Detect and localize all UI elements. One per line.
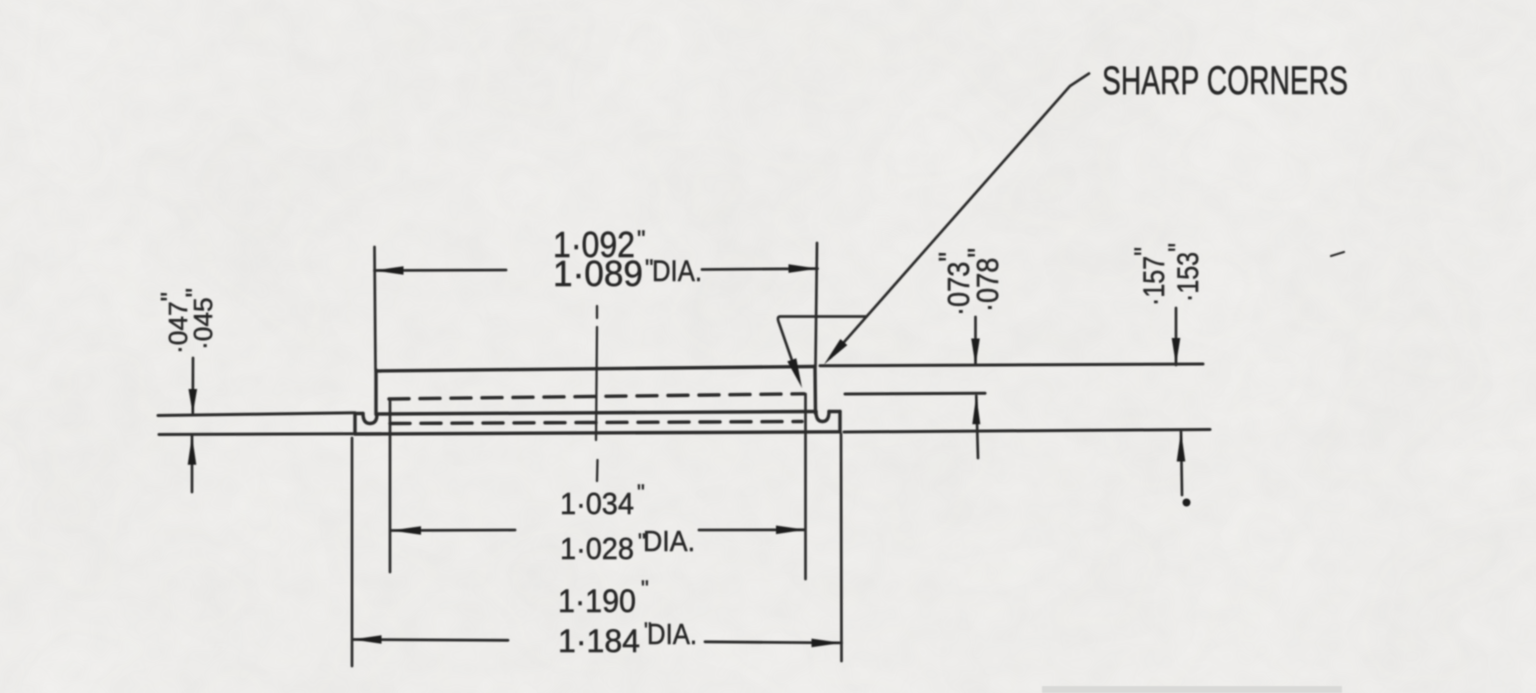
svg-text:": " bbox=[641, 576, 649, 601]
svg-text:1·184: 1·184 bbox=[558, 623, 640, 659]
svg-text:1·089: 1·089 bbox=[553, 253, 643, 294]
svg-text:DIA.: DIA. bbox=[647, 619, 697, 651]
svg-text:1·034: 1·034 bbox=[560, 486, 634, 521]
svg-text:": " bbox=[637, 480, 645, 505]
svg-text:": " bbox=[637, 226, 646, 253]
svg-text:DIA.: DIA. bbox=[652, 255, 702, 288]
svg-text:DIA.: DIA. bbox=[643, 526, 695, 558]
svg-text:SHARP CORNERS: SHARP CORNERS bbox=[1102, 59, 1348, 103]
svg-text:1·028: 1·028 bbox=[560, 531, 634, 566]
svg-text:1·190: 1·190 bbox=[558, 583, 636, 619]
